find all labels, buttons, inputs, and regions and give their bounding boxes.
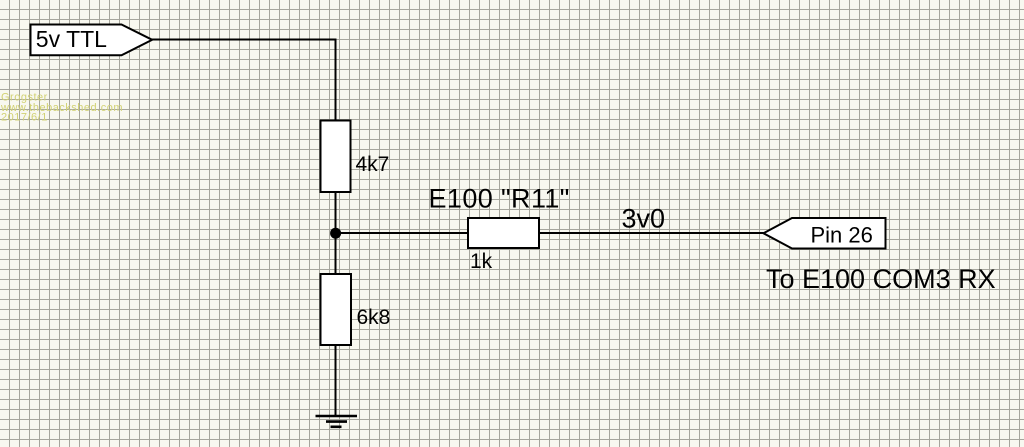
svg-text:5v TTL: 5v TTL [36, 26, 107, 52]
svg-text:Pin 26: Pin 26 [811, 223, 873, 248]
port flag Pin 26 [764, 218, 886, 249]
watermark Grogster www.thebackshed.com 2017/6/1 [0, 92, 123, 124]
resistor R2 6k8 [321, 274, 391, 345]
ground symbol [316, 416, 358, 427]
svg-text:To E100 COM3 RX: To E100 COM3 RX [766, 264, 996, 294]
wire from R2 bottom to ground [335, 345, 337, 416]
svg-text:6k8: 6k8 [357, 306, 391, 329]
port flag 5v TTL [31, 25, 153, 56]
wire from R1 bottom to junction node [335, 192, 337, 233]
svg-text:4k7: 4k7 [356, 153, 390, 176]
svg-text:2017/6/1: 2017/6/1 [1, 112, 48, 124]
svg-text:E100 "R11": E100 "R11" [429, 183, 570, 213]
resistor R1 4k7 [321, 121, 390, 193]
wire from 5v TTL flag to resistor R1 top [152, 40, 336, 121]
wire from junction to resistor R11 left [336, 232, 469, 234]
wire from R11 right to Pin 26 flag [539, 232, 764, 234]
node junction dot [330, 228, 341, 239]
svg-text:1k: 1k [470, 250, 493, 273]
svg-text:3v0: 3v0 [622, 203, 666, 233]
resistor R11 1k [468, 218, 539, 273]
wire from junction to resistor R2 top [335, 233, 337, 274]
